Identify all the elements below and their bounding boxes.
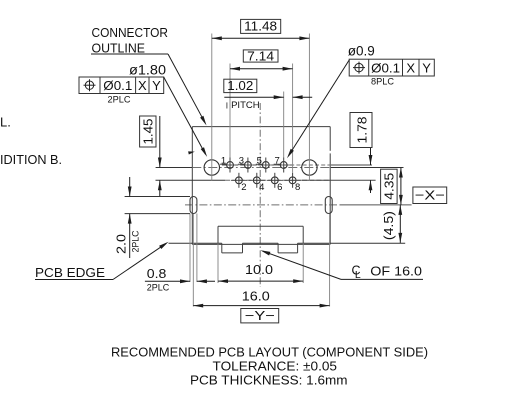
svg-text:7.14: 7.14 (247, 48, 274, 63)
dim 2.0 label (113, 230, 141, 254)
label centerline of 16.0 (352, 264, 423, 281)
fcf right frame (349, 59, 434, 76)
fcf left datum Y (152, 78, 161, 93)
fcf left tolerance (103, 78, 132, 93)
ext slot left center (192, 214, 194, 307)
svg-text:−Y−: −Y− (245, 308, 275, 323)
datum Y label (241, 308, 279, 323)
dim 4.5 label (381, 211, 396, 240)
dim 11.48 line (212, 36, 310, 40)
datum X label (413, 187, 447, 204)
svg-text:Y: Y (152, 78, 161, 93)
pin 5 (256, 156, 274, 173)
vertical centerline (259, 103, 261, 287)
pin 6 (267, 173, 283, 193)
dim 1.45 line (158, 116, 162, 196)
mounting hole left (204, 160, 219, 175)
svg-text:Y: Y (422, 61, 431, 76)
ext slot right center (329, 214, 331, 307)
fcf right position symbol (353, 62, 365, 74)
svg-text:RECOMMENDED PCB LAYOUT (COMPON: RECOMMENDED PCB LAYOUT (COMPONENT SIDE) (111, 345, 428, 360)
ext slot right edge (196, 214, 198, 283)
dim 4.35 line (399, 168, 403, 205)
ext pin1 col (229, 64, 231, 158)
svg-text:1.02: 1.02 (227, 78, 253, 93)
mounting hole centerline (156, 167, 404, 169)
PCB edge line (169, 242, 406, 244)
slot left (190, 197, 197, 214)
fcf left datum X (138, 78, 147, 93)
fcf right tolerance (371, 61, 400, 76)
ext tab left (217, 243, 219, 283)
dim 11.48 label (241, 19, 281, 34)
connector front tab (218, 226, 303, 243)
svg-text:7: 7 (275, 156, 280, 167)
connector outline bottom edge (192, 243, 330, 245)
pin 7 (274, 156, 292, 173)
svg-text:3: 3 (239, 156, 244, 167)
ext pin8 col (292, 64, 294, 173)
dim 1.45 label (140, 116, 156, 147)
pin row 1 centerline (222, 164, 372, 166)
dim 16.0 line (193, 304, 329, 308)
svg-text:2: 2 (241, 182, 246, 193)
svg-text:1.78: 1.78 (355, 117, 370, 144)
label dia 1.80 (129, 63, 166, 78)
dim 10.0 line (218, 279, 303, 283)
pin 4 (249, 173, 265, 193)
label 2PLC left (108, 95, 131, 106)
edge cutout left (222, 243, 243, 253)
dim 10.0 label (245, 262, 273, 277)
ext slot left edge (189, 214, 191, 283)
dim 1.02 line (224, 95, 312, 99)
svg-text:4.35: 4.35 (381, 173, 396, 200)
label PCB EDGE (35, 265, 105, 280)
svg-text:4: 4 (259, 182, 264, 193)
ext slot bottom (125, 213, 190, 215)
dim 0.8 label (147, 266, 170, 294)
leader dia 1.80 (164, 77, 207, 157)
svg-text:2PLC: 2PLC (147, 283, 170, 294)
mounting hole right (302, 160, 317, 175)
dim 4.35 label (381, 169, 398, 203)
svg-text:TOLERANCE: ±0.05: TOLERANCE: ±0.05 (213, 359, 338, 374)
dim 2.0 line (128, 177, 132, 258)
connector outline top edge (192, 126, 330, 128)
svg-text:X: X (406, 61, 415, 76)
svg-text:10.0: 10.0 (245, 262, 273, 277)
svg-text:2PLC: 2PLC (108, 95, 131, 106)
fcf left frame (79, 77, 164, 94)
slot right (325, 197, 332, 214)
svg-text:ø0.9: ø0.9 (348, 43, 375, 58)
svg-text:6: 6 (277, 182, 282, 193)
svg-text:0.8: 0.8 (147, 266, 167, 281)
svg-text:PCB EDGE: PCB EDGE (35, 265, 105, 280)
pin 8 (284, 173, 300, 193)
note L (0, 115, 11, 130)
svg-text:2PLC: 2PLC (131, 230, 142, 252)
svg-text:5: 5 (257, 156, 262, 167)
label dia 0.9 (348, 43, 375, 58)
svg-text:1.45: 1.45 (140, 119, 155, 145)
dim 1.78 line (369, 148, 373, 194)
dim 16.0 label (242, 288, 270, 303)
svg-text:−X−: −X− (415, 187, 445, 202)
label PITCH (227, 100, 260, 111)
svg-text:(4.5): (4.5) (381, 211, 396, 240)
note condition B (0, 153, 62, 167)
svg-text:IDITION B.: IDITION B. (0, 153, 62, 167)
label CONNECTOR OUTLINE (92, 25, 169, 55)
svg-text:OF 16.0: OF 16.0 (370, 264, 422, 279)
svg-text:ø1.80: ø1.80 (129, 63, 166, 78)
fcf right datum Y (422, 61, 431, 76)
leader dia 0.9 (287, 60, 349, 158)
pin 2 (231, 173, 247, 193)
svg-text:16.0: 16.0 (242, 288, 270, 303)
edge cutout right (278, 243, 298, 253)
dim 7.14 line (230, 67, 293, 71)
dim 1.02 label (224, 78, 257, 93)
dim 7.14 label (243, 48, 278, 63)
svg-text:CONNECTOR: CONNECTOR (92, 25, 169, 40)
pin 3 (238, 156, 256, 173)
datum X centerline (185, 204, 412, 206)
svg-text:PCB THICKNESS: 1.6mm: PCB THICKNESS: 1.6mm (190, 373, 348, 388)
pin row 2 centerline (156, 179, 376, 181)
fcf right datum X (406, 61, 415, 76)
dim 0.8 line (145, 279, 215, 283)
fcf left position symbol (84, 79, 96, 91)
label 8PLC (371, 77, 394, 88)
leader PCB edge (35, 242, 169, 280)
connector outline left edge (191, 127, 193, 245)
svg-text:11.48: 11.48 (244, 19, 277, 34)
connector outline right edge (329, 127, 331, 245)
svg-text:L.: L. (0, 115, 11, 130)
svg-text:8PLC: 8PLC (371, 77, 394, 88)
svg-text:X: X (138, 78, 147, 93)
svg-text:Ø0.1: Ø0.1 (103, 78, 132, 93)
ext slot top (125, 196, 190, 198)
dim 4.5 line (398, 205, 402, 243)
svg-text:1: 1 (221, 156, 226, 167)
note thickness (190, 373, 348, 388)
ext tab right (302, 243, 304, 283)
dim 1.78 label (350, 113, 372, 148)
svg-text:Ø0.1: Ø0.1 (371, 61, 400, 76)
note recommended layout (111, 345, 428, 360)
ext hole left (211, 34, 213, 182)
pin 1 (220, 156, 238, 173)
ext hole right (308, 34, 310, 182)
svg-text:2.0: 2.0 (113, 234, 128, 254)
leader centerline (260, 250, 423, 279)
svg-text:OUTLINE: OUTLINE (92, 40, 146, 55)
note tolerance (213, 359, 338, 374)
svg-text:8: 8 (295, 182, 300, 193)
ext pin7 col (283, 92, 285, 158)
note leader arrow on outline left edge (188, 151, 195, 154)
leader connector outline (91, 54, 207, 126)
svg-text:PITCH: PITCH (231, 100, 260, 111)
